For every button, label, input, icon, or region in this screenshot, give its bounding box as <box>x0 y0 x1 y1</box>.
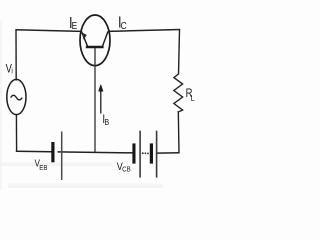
transistor Q1 <box>80 15 110 152</box>
battery VCB cell 1 thick plate <box>132 143 135 163</box>
source Vi <box>7 79 26 114</box>
resistor RL <box>174 74 183 112</box>
svg-text:VEB: VEB <box>35 158 48 172</box>
wire left vertical upper <box>15 29 17 81</box>
current arrow IB <box>99 85 104 114</box>
battery VCB cell 1 thin plate <box>139 131 141 178</box>
wire top-left horizontal <box>16 30 82 32</box>
svg-text:VCB: VCB <box>117 161 131 173</box>
wire bottom segment 1 <box>16 150 52 153</box>
battery VCB cell 2 thick plate <box>150 143 153 163</box>
wire bottom segment 3 <box>157 152 180 154</box>
battery VCB cell 2 thin plate <box>156 131 158 178</box>
svg-text:IC: IC <box>118 14 127 32</box>
svg-text:RL: RL <box>186 87 196 103</box>
wire right vertical upper <box>179 30 180 75</box>
wire bottom segment 2 <box>58 152 134 153</box>
dots between battery cells <box>142 152 149 154</box>
wire left vertical lower <box>15 114 17 152</box>
wire top-right horizontal <box>108 30 180 32</box>
battery VEB thin plate <box>61 132 63 181</box>
battery VEB thick plate <box>51 142 54 162</box>
svg-text:IE: IE <box>69 15 77 33</box>
svg-text:Vi: Vi <box>6 63 14 76</box>
svg-text:IB: IB <box>102 113 109 127</box>
wire right vertical lower <box>177 111 180 153</box>
